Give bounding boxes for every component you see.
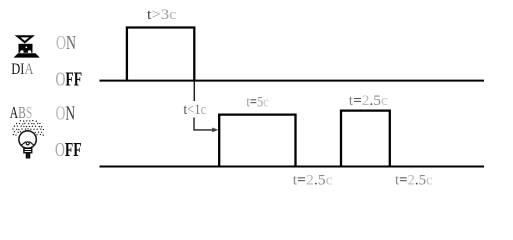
label t>3c xyxy=(147,7,177,23)
label t=2.5c (above pulse) xyxy=(349,93,388,109)
annotation t<1c with arrow xyxy=(184,101,219,132)
label t=5c xyxy=(246,94,268,110)
label ON (ABS row) xyxy=(56,102,75,124)
ABS warning lamp icon xyxy=(12,120,44,159)
label t=2.5c (bottom right) xyxy=(395,172,433,188)
wire: drop line below DIA falling edge xyxy=(193,82,195,102)
svg-text:t=5c: t=5c xyxy=(246,94,268,110)
label t=2.5c (below t=5c falling edge) xyxy=(293,172,333,188)
svg-text:ABS: ABS xyxy=(10,104,33,123)
wire: DIA OFF baseline xyxy=(100,80,485,82)
label OFF (DIA row) xyxy=(56,68,83,90)
svg-text:t>3c: t>3c xyxy=(147,7,177,23)
wire: ABS OFF baseline xyxy=(100,166,485,168)
svg-text:ON: ON xyxy=(56,102,75,124)
svg-text:t=2.5c: t=2.5c xyxy=(349,93,388,109)
label OFF (ABS row) xyxy=(55,139,82,161)
svg-text:OFF: OFF xyxy=(55,139,82,161)
svg-text:OFF: OFF xyxy=(56,68,83,90)
DIA indicator icon xyxy=(14,36,40,57)
svg-text:DIA: DIA xyxy=(11,60,34,78)
svg-text:ON: ON xyxy=(56,32,76,54)
pulse ABS t=2.5c xyxy=(341,111,390,167)
svg-text:t=2.5c: t=2.5c xyxy=(395,172,433,188)
label ON (DIA row) xyxy=(56,32,76,54)
pulse ABS t=5c xyxy=(219,115,295,167)
label DIA xyxy=(11,60,34,78)
svg-text:t<1c: t<1c xyxy=(184,101,207,117)
svg-text:t=2.5c: t=2.5c xyxy=(293,172,333,188)
label ABS xyxy=(10,104,33,123)
pulse DIA t>3c xyxy=(127,28,194,82)
